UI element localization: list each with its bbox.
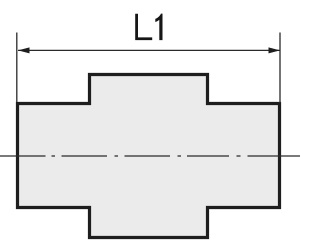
arrowhead left <box>18 47 30 53</box>
centerline <box>0 155 300 157</box>
extension line right <box>279 33 281 104</box>
arrowhead right <box>269 47 281 53</box>
label L1 letter L <box>135 14 152 40</box>
extension line left <box>16 33 18 103</box>
fitting body outline <box>18 75 280 238</box>
label L1 digit 1 <box>155 14 162 40</box>
dimension line L1 <box>18 49 280 51</box>
